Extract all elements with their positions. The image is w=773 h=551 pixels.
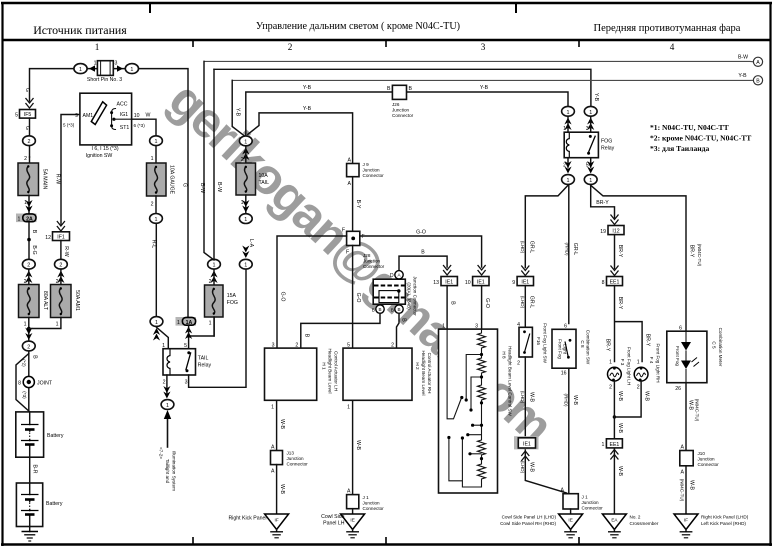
svg-text:F: F	[346, 250, 349, 256]
ground cowl side panel LH/RH	[559, 514, 583, 538]
node circle 2	[23, 136, 36, 146]
battery 1	[16, 412, 64, 457]
junction dot	[187, 351, 190, 354]
node circle 1	[150, 317, 163, 327]
wire	[60, 269, 62, 284]
svg-text:2: 2	[517, 361, 520, 367]
svg-text:3: 3	[185, 380, 188, 386]
wire	[245, 195, 247, 213]
fuse 10A GAUGE	[147, 163, 167, 196]
group	[607, 277, 623, 286]
arrow into short pin left	[89, 65, 95, 71]
relay pin3 loop up to tail fuse column	[189, 270, 246, 387]
svg-text:2: 2	[27, 345, 30, 351]
svg-text:(20(A), J34B): (20(A), J34B)	[407, 282, 412, 310]
wire Y-B main from tail fuse	[246, 92, 568, 135]
wire	[164, 410, 171, 419]
svg-text:Front Fog Light RH: Front Fog Light RH	[656, 343, 661, 382]
connector node	[239, 259, 252, 269]
wiper lever	[447, 329, 462, 419]
svg-text:3: 3	[586, 126, 589, 132]
svg-text:A: A	[348, 181, 352, 187]
group	[372, 305, 384, 313]
wire between batteries	[29, 457, 31, 483]
junction dot	[187, 334, 191, 338]
svg-text:1: 1	[271, 405, 274, 411]
svg-text:Junction Connector: Junction Connector	[413, 276, 418, 316]
ignition SW box	[75, 93, 140, 145]
svg-text:ST1: ST1	[120, 125, 130, 131]
arrow marker	[587, 161, 594, 174]
svg-text:W-B: W-B	[528, 462, 534, 473]
svg-text:10: 10	[465, 280, 471, 286]
svg-text:W-B: W-B	[688, 400, 694, 411]
wire	[29, 503, 31, 509]
front fog light LH F3	[608, 367, 622, 381]
svg-text:B: B	[372, 307, 375, 312]
svg-text:GR-L: GR-L	[572, 243, 578, 256]
wire	[29, 157, 31, 163]
svg-text:A: A	[681, 470, 685, 476]
wire Y-B branch to J9	[248, 113, 353, 164]
svg-text:Battery: Battery	[46, 501, 63, 507]
arrow marker	[163, 386, 170, 399]
svg-text:I12: I12	[612, 229, 619, 235]
wire AM1 feed	[61, 115, 80, 225]
svg-text:R-L: R-L	[150, 240, 156, 248]
svg-text:F: F	[342, 228, 345, 234]
wire	[568, 117, 591, 132]
svg-text:Junction: Junction	[363, 501, 381, 506]
group	[390, 271, 403, 279]
svg-text:FOG: FOG	[227, 300, 238, 306]
svg-text:No. 2: No. 2	[630, 515, 641, 520]
node circle 1 right of short pin	[125, 64, 138, 74]
wire	[449, 439, 463, 481]
svg-text:B-W: B-W	[199, 183, 205, 193]
svg-text:2: 2	[391, 343, 394, 349]
svg-text:IF: IF	[684, 518, 688, 523]
svg-text:Y-B: Y-B	[593, 93, 599, 102]
connector IE1 highlighted	[514, 436, 539, 449]
svg-text:15A: 15A	[227, 293, 237, 299]
svg-text:2: 2	[288, 42, 293, 52]
svg-text:13: 13	[433, 280, 439, 286]
node circle 1	[150, 214, 163, 224]
wire	[60, 241, 62, 259]
svg-text:Right Kick Panel: Right Kick Panel	[228, 516, 266, 522]
svg-text:1: 1	[637, 360, 640, 366]
junction dot	[523, 330, 526, 333]
svg-text:(RHD): (RHD)	[564, 242, 569, 255]
arrow marker	[242, 246, 249, 259]
wire	[276, 530, 278, 532]
fuse 80A ALT	[19, 285, 40, 318]
wire Y-B upper to fog relay pin3	[214, 69, 591, 105]
svg-text:TAIL: TAIL	[259, 180, 270, 186]
svg-text:B: B	[378, 307, 381, 312]
wire IG1 to gauge fuse	[132, 119, 156, 135]
svg-text:G-O: G-O	[484, 298, 490, 308]
group	[552, 329, 576, 368]
svg-text:AM1: AM1	[83, 113, 94, 119]
wire	[155, 147, 157, 164]
wire	[274, 537, 278, 539]
junction connector J26	[387, 85, 412, 99]
svg-text:2: 2	[163, 380, 166, 386]
svg-text:F 4: F 4	[649, 357, 654, 364]
wire	[28, 196, 30, 214]
svg-text:1: 1	[244, 217, 247, 223]
wire	[568, 537, 572, 539]
svg-text:Combination Meter: Combination Meter	[718, 328, 723, 367]
wire	[570, 530, 572, 532]
wire	[245, 147, 247, 163]
wire GR-L (LHD)	[525, 185, 568, 267]
G-O branch left to actuator LH	[277, 236, 347, 348]
svg-text:Cowl Side Panel RH (RHD): Cowl Side Panel RH (RHD)	[500, 521, 556, 526]
jumper inner link	[379, 291, 399, 303]
svg-text:Control Actuator RH: Control Actuator RH	[427, 353, 432, 394]
svg-text:BR-Y: BR-Y	[689, 245, 695, 258]
G-O down to actuator RH pin 5	[352, 246, 354, 349]
svg-text:6 (*3): 6 (*3)	[134, 123, 146, 128]
connector 1 EE1	[606, 439, 622, 448]
short pin SP1	[94, 61, 118, 76]
connector node	[562, 175, 575, 185]
svg-text:*1: N04C-TU, N04C-TT: *1: N04C-TU, N04C-TT	[650, 123, 729, 132]
junction dot	[110, 124, 113, 127]
svg-text:G: G	[24, 126, 30, 130]
svg-text:*2: кроме N04C-TU, N04C-TT: *2: кроме N04C-TU, N04C-TT	[650, 134, 751, 143]
svg-text:W-B: W-B	[279, 484, 285, 495]
wire	[685, 331, 687, 383]
svg-text:J10: J10	[698, 451, 706, 456]
svg-text:(N04C-TU): (N04C-TU)	[680, 479, 685, 502]
svg-text:Front Fog Light LH: Front Fog Light LH	[627, 347, 632, 385]
wire	[524, 286, 526, 328]
wire	[29, 433, 31, 438]
svg-text:2: 2	[151, 202, 154, 208]
svg-text:Crossmember: Crossmember	[630, 521, 659, 526]
svg-text:1: 1	[567, 178, 570, 184]
svg-text:Connector: Connector	[363, 506, 385, 511]
group	[667, 331, 707, 383]
svg-text:Y-B: Y-B	[234, 108, 240, 117]
wire	[155, 196, 157, 213]
svg-text:H 8: H 8	[502, 351, 507, 359]
wire	[588, 136, 595, 153]
svg-text:Front Fog: Front Fog	[675, 346, 680, 366]
svg-text:J13: J13	[287, 451, 295, 456]
wire	[167, 356, 170, 369]
jumper junction connector	[373, 279, 405, 304]
arrowhead	[681, 342, 691, 351]
wire	[21, 424, 39, 426]
G-O branch right	[360, 236, 482, 267]
wire B	[28, 222, 30, 258]
junction dot	[589, 135, 592, 138]
svg-text:(RHD): (RHD)	[563, 393, 568, 406]
svg-text:B: B	[31, 230, 37, 234]
svg-text:EA: EA	[611, 518, 618, 523]
svg-text:C 5: C 5	[712, 341, 717, 349]
svg-text:I 6, I 15 (*3): I 6, I 15 (*3)	[91, 146, 118, 152]
svg-text:Connector: Connector	[698, 462, 720, 467]
svg-text:2: 2	[59, 263, 62, 269]
junction dot	[587, 152, 590, 155]
node circle 1 left of short pin	[74, 64, 87, 74]
svg-text:B: B	[421, 250, 425, 256]
group	[753, 76, 762, 85]
svg-text:(LHD): (LHD)	[520, 391, 525, 404]
svg-text:BR-Y: BR-Y	[617, 297, 623, 310]
svg-text:1: 1	[602, 442, 605, 448]
svg-text:A: A	[271, 445, 275, 451]
svg-text:Источник питания: Источник питания	[33, 23, 127, 37]
group	[347, 495, 359, 509]
junction dot	[27, 238, 31, 242]
fusible link IF1 column	[57, 222, 64, 232]
svg-text:Headlight Beam Level: Headlight Beam Level	[328, 349, 333, 394]
svg-text:Cowl Side Panel LH (LHD): Cowl Side Panel LH (LHD)	[502, 515, 557, 520]
wire	[446, 286, 448, 330]
svg-text:B-Y: B-Y	[355, 200, 361, 209]
fuse 5A MAIN	[18, 163, 39, 196]
svg-text:3: 3	[272, 343, 275, 349]
svg-text:1: 1	[609, 360, 612, 366]
svg-text:B-R: B-R	[32, 465, 38, 474]
svg-text:J 1: J 1	[582, 495, 589, 500]
junction dot	[186, 369, 189, 372]
svg-text:B-W: B-W	[216, 182, 222, 192]
wire fog fuse bottom to pin5 node	[213, 317, 215, 336]
svg-text:R-W: R-W	[55, 174, 61, 184]
svg-text:Taillight and: Taillight and	[165, 459, 170, 484]
wire	[680, 531, 693, 533]
svg-text:B-W: B-W	[738, 55, 748, 61]
svg-text:W-B: W-B	[572, 395, 578, 406]
svg-text:B: B	[449, 301, 455, 305]
svg-text:BR-Y: BR-Y	[605, 339, 611, 352]
wire	[25, 513, 35, 516]
wire	[568, 132, 570, 158]
svg-text:9: 9	[512, 280, 515, 286]
svg-text:IE1: IE1	[521, 280, 529, 286]
connector node	[584, 175, 597, 185]
svg-text:G: G	[182, 183, 188, 187]
arrow marker	[153, 328, 160, 341]
svg-text:Connector: Connector	[392, 113, 414, 118]
group	[563, 494, 578, 509]
svg-text:8: 8	[18, 381, 21, 387]
wire	[352, 530, 354, 532]
svg-text:BR-Y: BR-Y	[596, 200, 609, 206]
group	[441, 277, 457, 286]
svg-text:D: D	[390, 273, 394, 279]
node circle 2	[22, 341, 35, 351]
group	[271, 451, 283, 465]
svg-text:W-B: W-B	[528, 392, 534, 403]
wire	[566, 139, 569, 152]
wire	[352, 509, 354, 514]
svg-text:2: 2	[24, 156, 27, 162]
svg-text:Front Fog Light SW: Front Fog Light SW	[543, 323, 548, 363]
svg-text:W-B: W-B	[689, 480, 695, 491]
svg-text:50A AM1: 50A AM1	[74, 290, 80, 311]
wire	[276, 465, 278, 514]
svg-text:Junction: Junction	[582, 500, 600, 505]
svg-text:G-O: G-O	[355, 293, 361, 303]
arrow marker	[564, 161, 571, 174]
svg-text:A: A	[561, 488, 565, 494]
svg-text:TAIL: TAIL	[198, 356, 209, 362]
ground no.2 crossmember	[602, 514, 626, 538]
group	[753, 57, 762, 66]
svg-text:H 2: H 2	[415, 362, 420, 370]
svg-text:1: 1	[18, 217, 21, 223]
svg-text:W-B: W-B	[617, 391, 623, 402]
svg-text:(*2): (*2)	[21, 359, 26, 367]
svg-text:1: 1	[589, 110, 592, 116]
svg-text:<7-2>: <7-2>	[159, 447, 164, 459]
svg-text:Connector: Connector	[363, 264, 385, 269]
wire	[29, 412, 31, 457]
svg-text:10A: 10A	[259, 173, 269, 179]
svg-text:Junction: Junction	[363, 259, 381, 264]
group	[608, 226, 624, 235]
wire	[566, 534, 574, 536]
svg-text:1: 1	[244, 139, 247, 145]
svg-text:BR-Y: BR-Y	[617, 245, 623, 258]
connector node	[239, 214, 252, 224]
marker 2A	[16, 214, 37, 223]
svg-text:2: 2	[637, 385, 640, 391]
JOINT	[18, 376, 53, 387]
svg-text:G: G	[24, 88, 30, 92]
wire slant to relay pin1	[157, 327, 169, 348]
svg-text:IE: IE	[350, 518, 354, 523]
svg-text:1: 1	[94, 61, 97, 67]
svg-text:(*3): (*3)	[22, 391, 27, 399]
wire	[169, 349, 171, 375]
svg-text:1: 1	[177, 320, 180, 326]
wire	[470, 453, 482, 455]
svg-text:*3: для Таиланда: *3: для Таиланда	[650, 144, 709, 153]
wire	[685, 530, 687, 532]
wire	[685, 466, 687, 514]
svg-text:F 3: F 3	[620, 359, 625, 366]
fusible link IF1	[45, 232, 69, 241]
svg-text:1: 1	[56, 322, 59, 328]
wire	[16, 354, 29, 412]
svg-text:80A ALT: 80A ALT	[42, 291, 48, 311]
wire	[471, 377, 482, 409]
wire to battery with bypass	[28, 352, 30, 412]
svg-text:1: 1	[166, 403, 169, 409]
svg-text:Y-B: Y-B	[480, 85, 489, 91]
svg-text:5 (*3): 5 (*3)	[63, 123, 75, 128]
svg-text:Junction: Junction	[698, 457, 716, 462]
arrow marker	[242, 200, 249, 213]
arrow marker	[25, 200, 32, 213]
svg-text:Управление дальним светом ( кр: Управление дальним светом ( кроме N04C-T…	[256, 21, 460, 32]
wire	[28, 540, 31, 542]
wire	[608, 531, 621, 533]
front fog light RH F4	[634, 367, 648, 381]
svg-text:Junction: Junction	[287, 456, 305, 461]
svg-text:IG1: IG1	[120, 112, 128, 118]
group	[564, 132, 598, 158]
wire BR-Y (N04C-TU) to meter	[591, 185, 686, 331]
svg-text:1: 1	[151, 156, 154, 162]
svg-text:Connector: Connector	[363, 173, 385, 178]
svg-text:2: 2	[241, 157, 244, 163]
svg-text:R-W: R-W	[63, 246, 69, 256]
resistor ladder	[462, 329, 485, 487]
svg-text:JOINT: JOINT	[37, 381, 53, 387]
svg-text:(N04C-TU): (N04C-TU)	[695, 399, 700, 422]
wire pin1 to J13	[276, 400, 278, 450]
svg-text:1: 1	[567, 110, 570, 116]
arrow marker	[25, 271, 32, 284]
svg-text:19: 19	[600, 229, 606, 235]
svg-text:Relay: Relay	[198, 363, 212, 369]
svg-text:3: 3	[481, 42, 486, 52]
svg-text:1: 1	[130, 67, 133, 73]
B wires from jumper to actuators	[301, 313, 380, 348]
svg-text:5A MAIN: 5A MAIN	[42, 169, 48, 190]
ground cowl side panel LH	[341, 514, 365, 538]
node circle 2	[55, 259, 68, 269]
svg-text:10: 10	[134, 113, 140, 119]
wire	[350, 537, 354, 539]
svg-text:BR-Y: BR-Y	[644, 334, 650, 347]
connector 8 EE1	[611, 266, 618, 276]
svg-text:B: B	[401, 318, 407, 322]
svg-text:Junction: Junction	[363, 168, 381, 173]
svg-text:B: B	[303, 334, 309, 338]
wire	[564, 531, 577, 533]
wire	[613, 530, 615, 532]
wire	[612, 537, 616, 539]
svg-text:J26: J26	[392, 102, 400, 107]
svg-text:2: 2	[295, 343, 298, 349]
wire	[29, 118, 31, 157]
svg-text:IE1: IE1	[477, 280, 485, 286]
wire	[204, 61, 214, 260]
wire	[186, 352, 191, 370]
wire	[397, 313, 400, 348]
svg-text:4: 4	[670, 42, 675, 52]
wire	[525, 334, 530, 353]
wire	[614, 235, 616, 269]
svg-text:GR-L: GR-L	[528, 241, 534, 254]
svg-text:Junction: Junction	[392, 108, 410, 113]
junction dot	[465, 398, 468, 401]
wire	[21, 494, 39, 496]
wire Y-B to connector B	[232, 79, 754, 81]
svg-text:Short Pin No. 3: Short Pin No. 3	[87, 77, 122, 83]
node circle 2	[22, 259, 35, 269]
svg-text:IE1: IE1	[445, 280, 453, 286]
ground right kick panel LHD	[674, 514, 698, 538]
wire	[613, 449, 615, 515]
svg-text:5: 5	[15, 113, 18, 119]
svg-text:B: B	[391, 307, 394, 312]
wire top bus	[30, 69, 189, 317]
svg-text:2: 2	[209, 279, 212, 285]
